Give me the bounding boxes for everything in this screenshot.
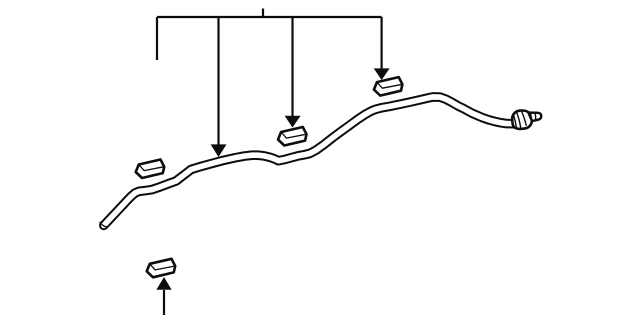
arrowhead to clip D (156, 277, 171, 290)
fitting collar line 1 (513, 114, 516, 127)
clip B (middle) (278, 127, 307, 146)
clip C (upper right) (374, 77, 403, 96)
thread line 1 (529, 113, 532, 122)
fitting threaded tip (527, 113, 542, 122)
bracket leader line (horizontal with tick) (157, 9, 382, 61)
clip A (on pipe, left) (136, 160, 165, 179)
fuel pipe outline (outer black) (104, 97, 514, 226)
leader line to clip B (291, 17, 293, 116)
fuel pipe inner white (104, 97, 514, 226)
thread line 2 (534, 113, 537, 121)
fitting collar line 3 (521, 111, 526, 126)
fitting nut (512, 111, 532, 129)
arrowhead to clip B (285, 116, 301, 128)
leader line to clip C (381, 17, 383, 69)
leader line to clip D (bottom, pointing up) (163, 290, 165, 315)
leader line to clip A (217, 17, 219, 145)
clip D (bottom) (147, 259, 176, 278)
arrowhead to clip C (374, 68, 390, 80)
pipe open end rim (100, 222, 107, 227)
arrowhead to clip A (211, 144, 227, 157)
fitting collar line 2 (517, 112, 521, 128)
